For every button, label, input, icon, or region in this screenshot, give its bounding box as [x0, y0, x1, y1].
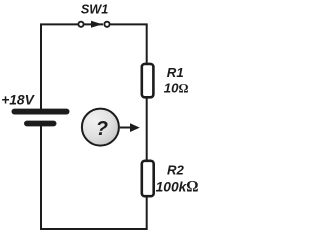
svg-text:100kΩ: 100kΩ [156, 178, 199, 195]
svg-text:SW1: SW1 [81, 3, 109, 17]
svg-text:R1: R1 [167, 65, 184, 80]
svg-text:R2: R2 [167, 162, 185, 177]
svg-text:+18V: +18V [1, 93, 35, 108]
svg-text:10Ω: 10Ω [164, 80, 189, 95]
svg-text:?: ? [96, 118, 108, 140]
